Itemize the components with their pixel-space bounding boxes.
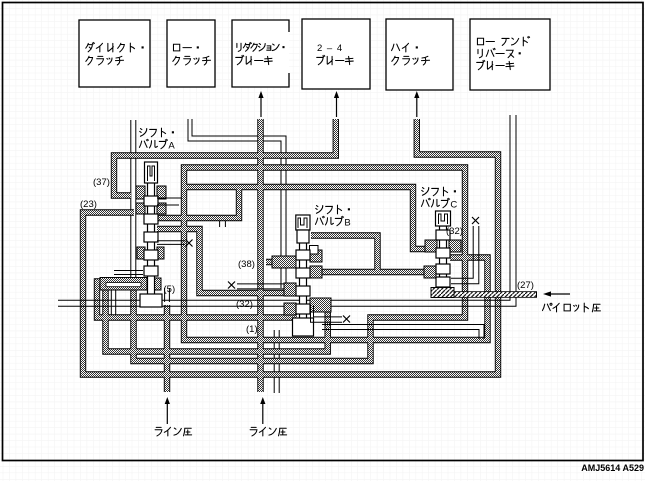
wire: P5 from valve A down to run D to valve B [157, 229, 287, 293]
wire: (37) loop and line to 2-4 brake riser [114, 119, 336, 196]
svg-text:(27): (27) [517, 280, 534, 291]
wire: valve B right X line [311, 305, 343, 322]
arrow pilot pressure [549, 293, 570, 295]
wire: line pressure riser 1 [165, 305, 170, 392]
wire: valve A right thin lines to X [157, 241, 185, 245]
arrow line pressure 1 [166, 402, 168, 424]
X drain valve B left [228, 282, 235, 289]
label line pressure 1 [155, 427, 162, 436]
valve C bottom hatched slab [431, 288, 454, 298]
box3 label [237, 43, 241, 51]
X drain valve B right [343, 316, 350, 323]
faint scan grid [0, 0, 1, 1]
wire: long double-line pipe at y303 up to x513 [58, 115, 516, 306]
wire: run B from valve A plate [106, 282, 328, 352]
wire: double-line pipe elbow above valve A down to valve B top [188, 119, 286, 288]
box direct clutch [79, 20, 150, 87]
wire: plate under valve A and run A [97, 282, 297, 318]
svg-text:(37): (37) [93, 177, 110, 188]
svg-text:(32): (32) [446, 226, 463, 237]
wire: outer loop high clutch riser, right drop, bottom run, (23) drop [83, 119, 498, 375]
svg-text:(1): (1) [246, 324, 258, 335]
label pilot pressure [542, 303, 552, 310]
svg-text:(23): (23) [80, 199, 97, 210]
svg-text:A: A [168, 140, 175, 151]
svg-text:(5): (5) [164, 284, 176, 295]
svg-text:(38): (38) [238, 259, 255, 270]
wire: double-line pipe valve B right to run C elbow [322, 325, 484, 340]
label shift valve A [140, 129, 147, 137]
box2 label [173, 44, 179, 51]
wire: X pipe into valve C right [451, 226, 479, 284]
wire: riser stub below (5) port [165, 288, 170, 302]
stippled pipe underlays [114, 119, 336, 196]
valve: shift valve C spool [424, 211, 461, 298]
box reduction brake [232, 20, 289, 87]
wire: valve A left spring lines [114, 271, 143, 275]
label shift valve B [316, 206, 323, 214]
wire: P4-P5 stub [220, 221, 226, 227]
wire: double-line pipe left of shift valve A (x133) [131, 120, 136, 281]
wire: valve A to Vd thin lines [157, 198, 182, 205]
wire: double-line pipe below valve B [274, 330, 279, 393]
label line pressure 2 [250, 427, 257, 436]
wire: X to valve B left [237, 284, 284, 289]
arrow to reduction brake [260, 96, 262, 117]
box low and reverse brake [470, 19, 550, 90]
arrow to 2-4 brake [336, 96, 338, 117]
box high clutch [386, 19, 453, 90]
svg-text:(32): (32) [236, 299, 253, 310]
wire: P3 run to valve C left port [184, 187, 431, 249]
X drain valve A [186, 240, 193, 247]
wire: stub below valve A plate [111, 287, 115, 315]
box 2-4 brake [302, 19, 370, 89]
wire: P3 hang and P4 to valve A [155, 187, 239, 218]
wire: reduction brake riser down to line pressure 2 [258, 119, 263, 392]
wire: pilot pressure hatched pipe (27) [434, 291, 537, 298]
svg-text:2 – 4: 2 – 4 [317, 43, 343, 54]
svg-text:C: C [450, 199, 457, 210]
svg-text:AMJ5614 A529: AMJ5614 A529 [581, 463, 644, 473]
box6 label [477, 38, 483, 44]
wire: valve B top right pipe to run G [311, 236, 378, 273]
valve: shift valve A spool [100, 162, 166, 307]
wire: run G valve B to valve C [312, 270, 433, 275]
X drain valve C [472, 217, 479, 224]
box1 label [86, 42, 95, 51]
wire: P2 run with both drops, run E, run C to valve C right [134, 168, 488, 362]
svg-text:B: B [344, 217, 350, 228]
wire: (38) stub to valve B [266, 260, 288, 265]
arrow to high clutch [416, 96, 418, 117]
label shift valve C [422, 188, 429, 196]
box5 label [392, 44, 400, 50]
box low clutch [167, 20, 215, 87]
arrow line pressure 2 [262, 402, 264, 424]
valve: shift valve B spool [272, 215, 331, 336]
